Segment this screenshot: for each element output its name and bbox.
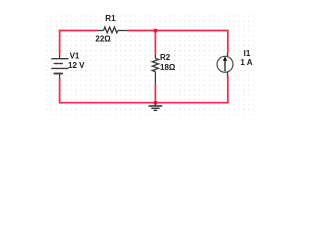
svg-text:12 V: 12 V <box>68 61 85 70</box>
svg-text:1 A: 1 A <box>240 58 252 67</box>
wire top left (node between V1+ and R1 left) <box>60 31 98 55</box>
resistor R1 <box>97 27 127 33</box>
junction node A (top of R2 branch) <box>154 29 158 33</box>
junction node B (bottom of R2 branch, ground tie) <box>154 101 158 105</box>
wire middle branch top (node to R2 top) <box>154 31 156 55</box>
voltage source V1 (battery) <box>51 54 68 78</box>
wire top right (R1 right to I1 top, through node) <box>127 31 228 54</box>
svg-text:R1: R1 <box>105 14 116 23</box>
wire right bottom (I1 bottom to bottom rail) <box>227 76 229 103</box>
svg-text:R2: R2 <box>160 53 171 62</box>
svg-text:22Ω: 22Ω <box>95 35 111 44</box>
svg-text:I1: I1 <box>244 49 251 58</box>
resistor R2 <box>152 54 158 85</box>
ground <box>149 103 163 111</box>
current source I1 <box>217 53 233 76</box>
wire left bottom (V1- down to bottom rail) <box>59 78 61 103</box>
svg-text:V1: V1 <box>70 51 80 60</box>
wire bottom rail <box>59 102 229 104</box>
wire middle branch bottom (R2 bottom to bottom rail) <box>154 85 156 103</box>
svg-text:18Ω: 18Ω <box>160 63 176 72</box>
